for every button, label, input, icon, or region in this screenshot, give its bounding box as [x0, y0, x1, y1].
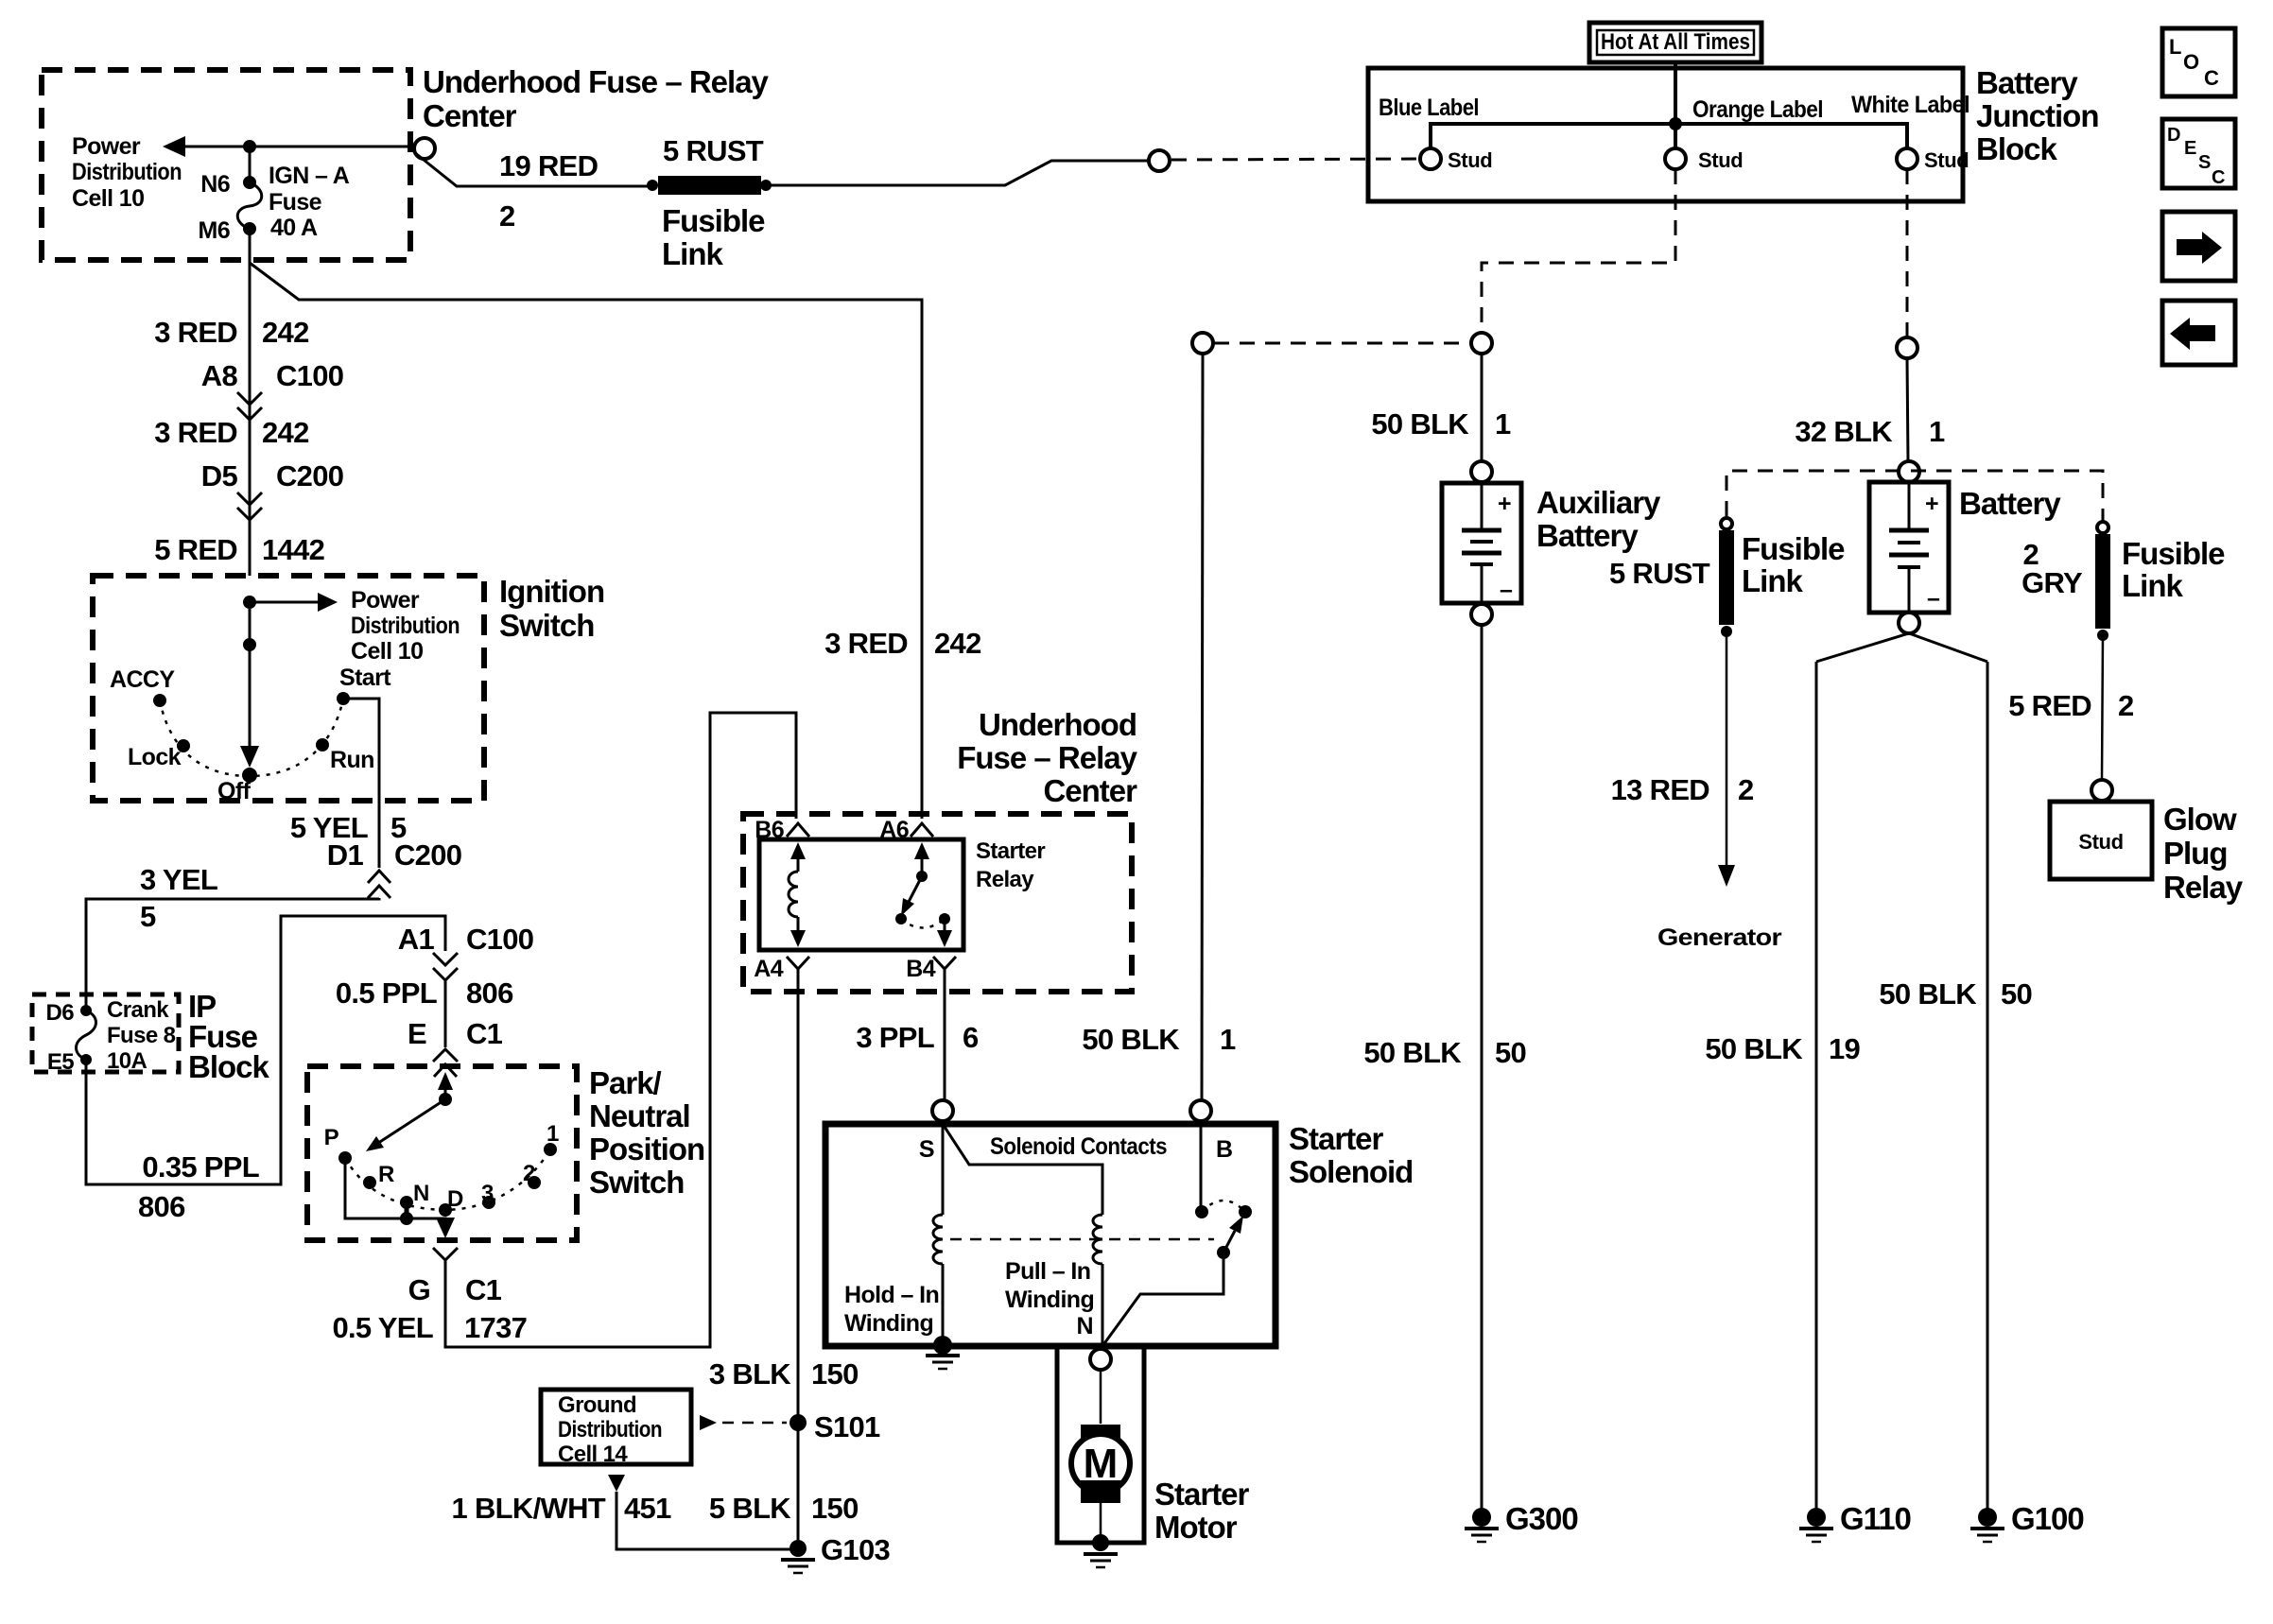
terminal S circle — [932, 1100, 953, 1121]
svg-text:Starter: Starter — [976, 838, 1045, 864]
terminal circle glow plug relay — [2091, 780, 2112, 801]
wire: 1 BLK/WHT 451 to G103 — [616, 1492, 790, 1549]
label: 3 RED 242 (feeder) — [824, 627, 980, 660]
arrow + dashed link to S101 — [700, 1415, 787, 1430]
svg-text:IGN – A: IGN – A — [269, 163, 350, 189]
label B4 — [906, 956, 935, 982]
label: Starter Solenoid — [1289, 1121, 1413, 1189]
svg-text:Center: Center — [423, 98, 517, 133]
wires: battery Y split — [1816, 633, 1987, 662]
label: 19 RED 2 — [499, 149, 599, 233]
svg-text:5 RUST: 5 RUST — [663, 134, 764, 167]
label: 3 RED 242 (first) — [154, 316, 308, 349]
svg-text:50: 50 — [2001, 977, 2032, 1011]
svg-text:Relay: Relay — [976, 867, 1034, 892]
svg-text:3 PPL: 3 PPL — [856, 1021, 934, 1054]
gear selector arc (dotted) — [345, 1149, 550, 1210]
svg-text:50 BLK: 50 BLK — [1082, 1023, 1180, 1056]
dashed wire into battery junction block — [1171, 159, 1418, 160]
svg-text:Winding: Winding — [844, 1310, 933, 1337]
svg-text:Power: Power — [72, 133, 141, 160]
underhood fuse-relay center box 2 (dashed) — [743, 814, 1132, 992]
svg-text:Starter: Starter — [1154, 1477, 1250, 1512]
svg-text:Glow: Glow — [2163, 802, 2237, 837]
svg-text:0.35 PPL: 0.35 PPL — [142, 1150, 259, 1183]
svg-text:Fuse – Relay: Fuse – Relay — [957, 740, 1137, 775]
svg-text:Park/: Park/ — [589, 1065, 662, 1100]
svg-text:Distribution: Distribution — [351, 613, 460, 639]
label: 0.35 PPL 806 — [138, 1150, 259, 1223]
contact Off — [242, 768, 257, 783]
svg-text:Block: Block — [188, 1049, 270, 1084]
svg-text:50: 50 — [1495, 1036, 1526, 1069]
svg-text:G: G — [408, 1273, 430, 1306]
svg-text:Block: Block — [1976, 131, 2058, 166]
label: Underhood Fuse-Relay Center (top) — [423, 64, 770, 133]
bus bar inside junction block — [1431, 124, 1907, 148]
wire: A4 down to S101 — [797, 978, 800, 1540]
svg-text:G300: G300 — [1505, 1501, 1578, 1536]
splice S101 (dot) — [789, 1414, 807, 1431]
wire: Start contact to D1 connector — [343, 699, 379, 868]
contact 3 — [482, 1196, 495, 1209]
svg-text:3 RED: 3 RED — [154, 416, 237, 449]
legend box arrow right — [2162, 212, 2235, 281]
pin N6 (dot) — [243, 176, 256, 189]
relay coil with arrows — [789, 842, 806, 947]
wire: hold-in to case ground — [942, 1264, 945, 1343]
ground G110 — [1799, 1508, 1833, 1542]
label: 5 BLK 150 — [709, 1492, 859, 1525]
svg-text:Fuse 8: Fuse 8 — [107, 1023, 176, 1048]
label: 3 BLK 150 — [709, 1357, 859, 1391]
svg-text:L: L — [2169, 35, 2181, 59]
label: 2 GRY — [2021, 538, 2083, 599]
terminal circle battery bottom — [1899, 613, 1919, 633]
ground G103 — [781, 1540, 815, 1573]
wire: B down to fixed contact — [1200, 1121, 1203, 1206]
svg-text:Battery: Battery — [1976, 65, 2078, 100]
label G100 — [2011, 1501, 2084, 1536]
svg-text:1: 1 — [547, 1121, 559, 1147]
label A6 — [879, 817, 909, 843]
label 2 — [523, 1161, 535, 1186]
dashed wire: orange stud jog to aux feed — [1482, 169, 1675, 333]
label: 50 BLK 50 (G100 wire) — [1879, 977, 2032, 1011]
label Lock — [128, 744, 182, 770]
motor brush (bottom) — [1081, 1480, 1120, 1503]
ground distribution cell 14 box — [541, 1390, 691, 1464]
fuse Crank Fuse 8 10A (S-curve) — [77, 1011, 96, 1060]
svg-text:Fusible: Fusible — [1742, 531, 1845, 566]
underhood fuse-relay center box 1 (dashed) — [42, 70, 410, 260]
svg-text:Underhood Fuse – Relay: Underhood Fuse – Relay — [423, 64, 770, 99]
contact D — [439, 1203, 452, 1217]
stud circle (white) — [1897, 148, 1917, 169]
svg-text:–: – — [1500, 577, 1513, 603]
wire: orange stud stub — [1674, 124, 1677, 148]
svg-text:D: D — [447, 1186, 463, 1212]
stud circle (blue) — [1420, 148, 1441, 169]
svg-text:Battery: Battery — [1959, 486, 2061, 521]
wire: 5 RED to glow plug relay — [2102, 635, 2103, 780]
svg-text:2: 2 — [2118, 689, 2134, 722]
connector C100 chevrons (down) — [433, 953, 458, 980]
starter relay box — [759, 839, 963, 950]
svg-text:242: 242 — [262, 316, 309, 349]
svg-text:S101: S101 — [814, 1410, 880, 1443]
svg-text:5 BLK: 5 BLK — [709, 1492, 791, 1525]
svg-text:C1: C1 — [466, 1017, 503, 1050]
svg-text:Distribution: Distribution — [72, 159, 182, 185]
glow plug relay box — [2050, 802, 2152, 879]
svg-text:2: 2 — [1738, 773, 1754, 806]
svg-text:1: 1 — [1220, 1023, 1236, 1056]
node: pivot dot — [439, 1093, 452, 1106]
label N — [413, 1181, 429, 1206]
wire: N contact stub — [405, 1202, 409, 1218]
contact travel arc (dotted) — [1202, 1201, 1245, 1212]
label D — [447, 1186, 463, 1212]
relay switch contacts — [895, 842, 952, 947]
svg-text:1: 1 — [1929, 415, 1945, 448]
svg-text:Position: Position — [589, 1132, 704, 1166]
label M6 — [198, 217, 230, 244]
svg-text:6: 6 — [963, 1021, 979, 1054]
starter motor enclosure — [1057, 1346, 1144, 1543]
svg-text:Off: Off — [217, 778, 252, 804]
label: 0.5 YEL 1737 — [332, 1311, 527, 1344]
wire: aux battery to G300 — [1481, 625, 1484, 1509]
wire: P contact to output — [345, 1158, 445, 1227]
svg-text:50 BLK: 50 BLK — [1371, 407, 1469, 441]
auxiliary battery — [1442, 483, 1521, 603]
svg-text:Ignition: Ignition — [499, 574, 604, 609]
label: Ignition Switch — [499, 574, 604, 643]
svg-text:242: 242 — [262, 416, 309, 449]
label: Hold-In Winding — [844, 1282, 939, 1337]
svg-text:M: M — [1084, 1441, 1119, 1487]
svg-text:Stud: Stud — [1448, 148, 1492, 172]
svg-text:3 RED: 3 RED — [154, 316, 237, 349]
wire: 19 RED from circle through fusible link — [414, 152, 652, 186]
label: D5 / C200 connector — [201, 459, 344, 492]
wire: 0.5 YEL loop up to relay B6 — [445, 713, 796, 1347]
svg-text:451: 451 — [624, 1492, 671, 1525]
svg-text:–: – — [1927, 585, 1940, 612]
svg-text:806: 806 — [466, 976, 513, 1010]
pull-in winding coil — [1093, 1215, 1102, 1264]
label: Battery Junction Block — [1976, 65, 2099, 166]
svg-text:5 RUST: 5 RUST — [1609, 557, 1710, 590]
svg-text:ACCY: ACCY — [110, 666, 175, 693]
svg-text:G103: G103 — [821, 1533, 890, 1566]
svg-text:Power: Power — [351, 587, 420, 613]
label: 3 RED 242 (second) — [154, 416, 308, 449]
label: Fusible Link (top) — [662, 203, 765, 271]
label: 50 BLK 19 — [1705, 1032, 1860, 1065]
svg-text:Switch: Switch — [499, 608, 594, 643]
svg-text:242: 242 — [934, 627, 981, 660]
svg-text:Fusible: Fusible — [2122, 536, 2225, 571]
wire: 0.35 PPL from E5 to A1 — [86, 916, 445, 1184]
svg-text:E: E — [2184, 138, 2196, 159]
wire+arrow to Power Distribution Cell 10 (right) — [250, 593, 338, 612]
wire: left leg to G110 — [1815, 662, 1818, 1509]
pin A4 chevron — [787, 957, 809, 978]
svg-text:E: E — [408, 1017, 426, 1050]
ignition switch box (dashed) — [93, 576, 484, 801]
svg-text:50 BLK: 50 BLK — [1705, 1032, 1803, 1065]
motor M circle — [1071, 1434, 1130, 1493]
ground: hold-in winding case ground — [926, 1336, 960, 1369]
svg-text:Junction: Junction — [1976, 98, 2099, 133]
svg-text:D: D — [2167, 125, 2180, 146]
svg-text:Generator: Generator — [1657, 924, 1782, 951]
svg-text:10A: 10A — [107, 1048, 147, 1074]
svg-text:Link: Link — [1742, 563, 1803, 598]
svg-text:Stud: Stud — [1924, 148, 1969, 172]
svg-text:Starter: Starter — [1289, 1121, 1384, 1156]
label: 13 RED 2 — [1611, 773, 1754, 806]
label: IGN-A Fuse 40 A — [269, 163, 350, 241]
svg-text:Fuse: Fuse — [269, 189, 322, 216]
svg-text:Plug: Plug — [2163, 836, 2228, 871]
label: Park/Neutral Position Switch — [589, 1065, 704, 1200]
svg-text:Stud: Stud — [1698, 148, 1743, 172]
label: A8 / C100 connector — [201, 359, 344, 392]
label: 3 YEL 5 — [140, 863, 217, 933]
svg-text:N: N — [1077, 1313, 1093, 1339]
contact P — [338, 1151, 352, 1165]
label: Orange Label — [1692, 96, 1823, 123]
wire: 32 BLK segment — [1907, 358, 1908, 461]
node: junction dot on feed wire — [243, 140, 256, 153]
svg-text:1442: 1442 — [262, 533, 324, 566]
wire: 0.5 PPL segment — [444, 980, 447, 1047]
node: ignition feed junction — [243, 596, 256, 609]
label R — [378, 1162, 394, 1187]
svg-text:Crank: Crank — [107, 997, 169, 1023]
hot at all times box — [1589, 23, 1761, 62]
dashed wire between circles — [1214, 342, 1470, 345]
pin M6 (dot) — [243, 222, 256, 235]
svg-text:13 RED: 13 RED — [1611, 773, 1710, 806]
label 3 — [481, 1181, 494, 1206]
mechanical linkage (dashed) — [950, 1238, 1214, 1241]
svg-text:Hot At All Times: Hot At All Times — [1601, 29, 1750, 55]
svg-text:GRY: GRY — [2021, 566, 2083, 599]
main battery — [1869, 482, 1949, 613]
detent arc (dotted) — [160, 699, 343, 776]
park/neutral position switch box (dashed) — [307, 1066, 577, 1240]
wire: link to junction circle — [766, 161, 1149, 185]
svg-text:Cell 10: Cell 10 — [72, 185, 144, 212]
wire: N circle to motor — [1100, 1370, 1102, 1424]
svg-text:C200: C200 — [276, 459, 343, 492]
svg-text:Blue Label: Blue Label — [1379, 95, 1479, 121]
pin E5 (dot) — [80, 1054, 92, 1065]
svg-text:40 A: 40 A — [270, 215, 318, 241]
ground G300 — [1465, 1508, 1499, 1542]
label: E / C1 — [408, 1017, 503, 1050]
contact N — [400, 1196, 413, 1209]
moving contact arm with arrowhead — [1102, 1216, 1243, 1346]
svg-text:Hold – In: Hold – In — [844, 1282, 939, 1308]
pin D6 (dot) — [80, 1005, 92, 1016]
svg-text:Run: Run — [330, 747, 374, 773]
connector circle (inline) — [1149, 150, 1170, 171]
contact 2 — [528, 1176, 541, 1189]
svg-text:Fusible: Fusible — [662, 203, 765, 238]
svg-text:Orange Label: Orange Label — [1692, 96, 1823, 123]
label B — [1216, 1136, 1232, 1163]
terminal B circle — [1190, 1100, 1211, 1121]
svg-text:Pull – In: Pull – In — [1005, 1258, 1090, 1285]
label: Hot At All Times — [1601, 29, 1750, 55]
terminal circle aux battery top — [1471, 461, 1492, 482]
label: Ground Distribution Cell 14 — [558, 1392, 662, 1467]
svg-text:0.5 YEL: 0.5 YEL — [332, 1311, 433, 1344]
wire: B4 to solenoid S — [944, 978, 946, 1100]
label: 50 BLK 50 (G300 wire) — [1363, 1036, 1526, 1069]
label: 50 BLK 1 (aux) — [1371, 407, 1511, 441]
svg-text:19: 19 — [1829, 1032, 1861, 1065]
svg-text:3: 3 — [481, 1181, 494, 1206]
contact 1 — [544, 1143, 557, 1156]
hold-in winding coil — [933, 1215, 943, 1264]
label Stud (glow plug relay) — [2078, 830, 2123, 854]
label: Glow Plug Relay — [2163, 802, 2244, 905]
svg-text:Ground: Ground — [558, 1392, 636, 1418]
contact Lock — [177, 739, 190, 752]
label: G / C1 — [408, 1273, 502, 1306]
svg-text:150: 150 — [811, 1357, 859, 1391]
svg-text:3 RED: 3 RED — [824, 627, 908, 660]
svg-text:+: + — [1925, 491, 1938, 517]
wire: right leg to G100 — [1987, 662, 1989, 1509]
wire: motor to ground — [1100, 1503, 1102, 1539]
switch arm with arrowhead toward P — [366, 1099, 445, 1151]
svg-text:2: 2 — [523, 1161, 535, 1186]
label G110 — [1840, 1501, 1911, 1536]
wire: B feed down to solenoid B — [1202, 354, 1203, 1100]
svg-text:B4: B4 — [906, 956, 935, 982]
contact: fixed dot — [1239, 1205, 1252, 1218]
svg-text:50 BLK: 50 BLK — [1879, 977, 1977, 1011]
svg-text:19 RED: 19 RED — [499, 149, 599, 182]
label: 32 BLK 1 — [1795, 415, 1945, 448]
svg-text:White Label: White Label — [1851, 92, 1969, 118]
wire: M6 down the left spine to ignition switch — [249, 229, 252, 576]
svg-text:Neutral: Neutral — [589, 1098, 690, 1133]
wire: circle to left arrow (Power Distribution feed) — [182, 146, 414, 148]
ground: starter motor — [1084, 1534, 1118, 1567]
label: Starter Motor — [1154, 1477, 1250, 1545]
svg-text:Auxiliary: Auxiliary — [1536, 485, 1661, 520]
svg-text:G110: G110 — [1840, 1501, 1911, 1536]
label Stud (blue) — [1448, 148, 1492, 172]
svg-text:Cell 10: Cell 10 — [351, 638, 423, 665]
svg-text:Cell 14: Cell 14 — [558, 1442, 628, 1467]
terminal circle battery top — [1899, 461, 1919, 482]
connector circle (aux top) — [1471, 333, 1492, 354]
connector C100 chevrons (down) — [237, 392, 262, 420]
contact Start — [337, 692, 350, 705]
label: 5 RUST (left link) — [1609, 557, 1710, 590]
svg-text:B: B — [1216, 1136, 1232, 1163]
legend box DESC — [2162, 119, 2235, 188]
svg-text:5 RED: 5 RED — [154, 533, 237, 566]
dashed harness box around battery — [1726, 471, 2103, 522]
svg-text:C: C — [2204, 66, 2219, 90]
wire+arrow into switch pivot — [438, 1072, 453, 1099]
svg-text:150: 150 — [811, 1492, 859, 1525]
label N (solenoid) — [1077, 1313, 1093, 1339]
terminal circle aux battery bottom — [1471, 604, 1492, 625]
label: 50 BLK 1 (B wire) — [1082, 1023, 1236, 1056]
svg-text:1: 1 — [1495, 407, 1511, 441]
svg-text:N6: N6 — [200, 171, 230, 198]
label S101 — [814, 1410, 880, 1443]
svg-text:Start: Start — [339, 665, 391, 691]
svg-text:O: O — [2183, 50, 2199, 74]
svg-text:0.5 PPL: 0.5 PPL — [336, 976, 437, 1010]
wire: hot box to bus — [1674, 62, 1677, 124]
wire: 3 YEL run to IP fuse block — [86, 898, 379, 1011]
stud circle (orange) — [1665, 148, 1686, 169]
wire: S to hold-in winding — [942, 1121, 945, 1215]
label: 5 RED 2 — [2008, 689, 2133, 722]
label: Fusible Link (right link) — [2122, 536, 2225, 603]
svg-text:+: + — [1498, 491, 1511, 517]
svg-text:806: 806 — [138, 1190, 185, 1223]
label: Underhood Fuse-Relay Center (middle) — [957, 707, 1137, 808]
label Start — [339, 665, 391, 691]
label E5 — [47, 1049, 74, 1075]
svg-text:C100: C100 — [466, 923, 533, 956]
svg-text:A8: A8 — [201, 359, 238, 392]
svg-text:D5: D5 — [201, 459, 238, 492]
svg-text:Battery: Battery — [1536, 518, 1639, 553]
wire: down to Off with arrowhead — [240, 602, 259, 768]
wire: pull-in down to N — [1102, 1264, 1104, 1346]
svg-text:Winding: Winding — [1005, 1287, 1094, 1313]
label: IP Fuse Block — [188, 989, 270, 1084]
label Stud (white) — [1924, 148, 1969, 172]
label: 5 RED 1442 — [154, 533, 324, 566]
svg-text:Solenoid Contacts: Solenoid Contacts — [990, 1133, 1167, 1160]
IP fuse block box (dashed) — [32, 994, 179, 1072]
wire+arrow: 13 RED to generator — [1718, 631, 1735, 887]
label: 5 YEL 5 — [290, 811, 407, 844]
svg-text:C1: C1 — [465, 1273, 502, 1306]
label S — [919, 1136, 934, 1163]
label: Fusible Link (left link) — [1742, 531, 1845, 598]
label Run — [330, 747, 374, 773]
pin B4 chevron — [933, 957, 956, 978]
arrowhead: switch output down — [436, 1218, 455, 1238]
label: Auxiliary Battery — [1536, 485, 1661, 553]
fusible link bar (horizontal) — [647, 176, 772, 195]
svg-text:50 BLK: 50 BLK — [1363, 1036, 1462, 1069]
arrow below ground distribution box — [608, 1475, 625, 1492]
pin B6 chevron — [787, 823, 809, 837]
contact Run — [316, 738, 329, 752]
fusible link left (5 RUST vertical) — [1719, 518, 1734, 637]
svg-text:A4: A4 — [754, 956, 783, 982]
contact: B side dot — [1195, 1205, 1208, 1218]
